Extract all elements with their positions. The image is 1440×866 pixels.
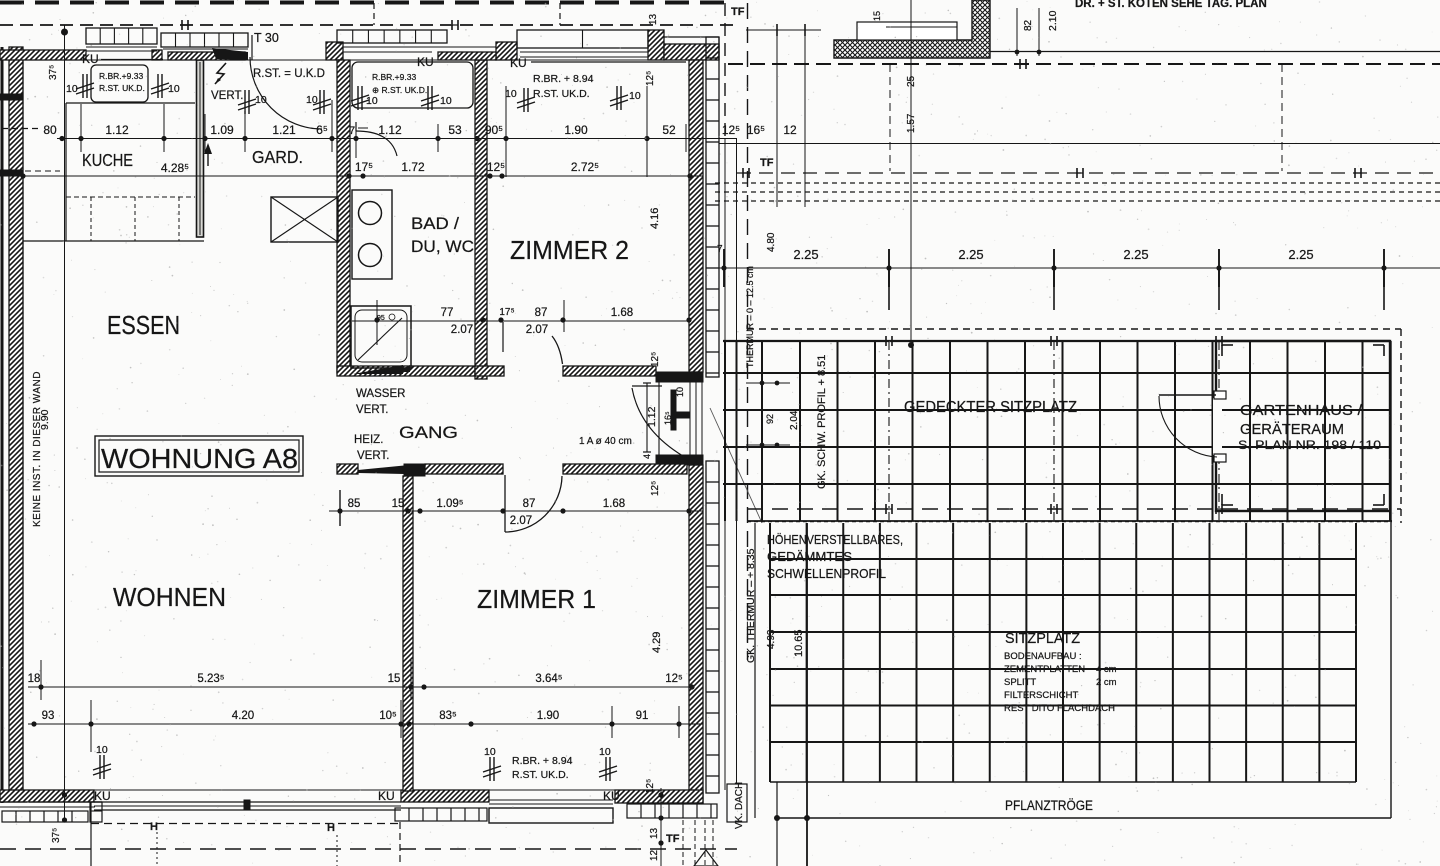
window W6 brick sill left part: [395, 808, 487, 821]
svg-text:12⁵: 12⁵: [645, 779, 656, 794]
svg-text:83⁵: 83⁵: [439, 710, 457, 722]
window W3 bath outer frame: [337, 30, 447, 43]
svg-text:PFLANZTRÖGE: PFLANZTRÖGE: [1005, 796, 1093, 813]
svg-text:REST DITO FLACHDACH: REST DITO FLACHDACH: [1004, 703, 1115, 714]
svg-text:7: 7: [349, 125, 355, 137]
svg-text:2.10: 2.10: [1047, 10, 1059, 31]
gard partition wall: [197, 60, 204, 237]
svg-text:37⁵: 37⁵: [51, 828, 62, 843]
window W6 brick sill right part: [627, 804, 717, 818]
svg-text:12: 12: [649, 849, 660, 861]
svg-text:10: 10: [440, 95, 452, 107]
dot x911 sill: [908, 342, 914, 348]
svg-text:HÖHENVERSTELLBARES,: HÖHENVERSTELLBARES,: [767, 533, 903, 547]
dashed vertical axis x747: [747, 3, 749, 660]
left exterior wall (hatched): [9, 47, 23, 792]
top wall NE corner piece: [664, 44, 719, 60]
bath south wall (hatched): [337, 366, 475, 376]
svg-text:7: 7: [717, 244, 723, 255]
dim line y138: [57, 138, 737, 140]
svg-text:15: 15: [872, 11, 882, 21]
right exterior wall lower part (hatched): [689, 465, 703, 803]
pflanztroege bottom dots: [774, 815, 780, 821]
small dim tick line y445: [746, 444, 790, 446]
svg-text:1.09⁵: 1.09⁵: [436, 498, 463, 510]
svg-text:1.57: 1.57: [906, 113, 917, 133]
svg-text:TF: TF: [731, 6, 745, 18]
dashed line y823: [91, 823, 400, 825]
svg-text:10⁵: 10⁵: [379, 710, 397, 722]
gartenhaus door arc: [1159, 396, 1217, 457]
svg-text:12⁵: 12⁵: [722, 123, 740, 137]
svg-text:WOHNUNG A8: WOHNUNG A8: [101, 443, 298, 474]
svg-text:1.90: 1.90: [564, 123, 588, 137]
dim line y138 dashes left: [2, 128, 42, 130]
svg-text:10: 10: [168, 83, 180, 95]
terrace dashed boundary right: [1400, 329, 1402, 523]
gartenhaus corner bracket BL: [1221, 494, 1223, 505]
dim line y687: [28, 686, 692, 688]
svg-text:2.04: 2.04: [789, 410, 800, 430]
svg-text:DR. + ST. KOTEN SEHE TAG. PLAN: DR. + ST. KOTEN SEHE TAG. PLAN: [1075, 0, 1267, 10]
svg-text:VK. DACH: VK. DACH: [734, 782, 745, 829]
svg-text:1.72: 1.72: [401, 160, 425, 174]
svg-text:90⁵: 90⁵: [485, 123, 503, 137]
threshold black T mark in gang: [671, 390, 676, 430]
svg-text:H: H: [327, 822, 335, 834]
svg-text:10: 10: [66, 83, 78, 95]
svg-text:KU: KU: [82, 52, 99, 66]
terrace door opening lines: [689, 382, 691, 455]
svg-text:53: 53: [448, 123, 462, 137]
svg-text:4.16: 4.16: [649, 208, 661, 229]
dashed vertical connector at x725: [724, 3, 726, 139]
svg-text:12⁵: 12⁵: [665, 673, 683, 685]
kitchen lower cabinets dashed: [66, 196, 195, 198]
dim dots y138: [78, 136, 83, 141]
gang dim ticks: [643, 382, 651, 384]
svg-text:12⁵: 12⁵: [487, 160, 505, 174]
svg-text:15: 15: [392, 498, 405, 510]
zimmer2 door leaf line: [502, 322, 504, 352]
terrace door leaf line: [632, 385, 662, 387]
zimmer1 west wall (hatched): [403, 476, 413, 791]
svg-text:5.23⁵: 5.23⁵: [197, 673, 224, 685]
concrete inner line: [886, 26, 957, 28]
terrace long dash line y509: [747, 508, 1401, 510]
svg-text:ZIMMER 1: ZIMMER 1: [477, 584, 596, 614]
sitzplatz paving grid: [770, 558, 1356, 560]
bath sink circle: [359, 202, 382, 225]
window W5 brick sill left: [2, 811, 88, 822]
svg-text:R.BR.+9.33: R.BR.+9.33: [372, 72, 416, 82]
svg-text:10: 10: [484, 746, 496, 758]
ins mark W4 right: [616, 86, 618, 110]
axis tick H on overhang line 2: [451, 20, 453, 30]
svg-text:10: 10: [675, 387, 685, 397]
north triangle outline: [694, 850, 718, 866]
svg-text:KUCHE: KUCHE: [82, 150, 133, 170]
zimmer2 south wall east piece (hatched): [563, 366, 656, 376]
bottom dim dots: [658, 792, 663, 797]
svg-text:10: 10: [629, 90, 641, 102]
window W2 sill lines: [163, 48, 248, 50]
electrical symbol squiggle: [215, 63, 226, 84]
dim line y511: [329, 510, 703, 512]
dashed line y201: [715, 200, 1440, 202]
vertical pair x777: [776, 30, 778, 207]
svg-text:R.ST. UK.D.: R.ST. UK.D.: [533, 88, 590, 100]
ins mark W3 right: [427, 86, 429, 110]
tick y173 c: [1354, 168, 1356, 178]
door frame line right: [251, 35, 253, 60]
svg-text:R.BR.+9.33: R.BR.+9.33: [99, 71, 143, 81]
svg-text:VERT.: VERT.: [356, 404, 388, 416]
svg-text:1.12: 1.12: [646, 406, 658, 427]
kitchen counter outline: [66, 102, 195, 104]
svg-text:GEDÄMMTES: GEDÄMMTES: [767, 550, 852, 564]
zimmer2 south wall west piece (hatched): [475, 366, 504, 376]
gartenhaus box: [1216, 341, 1390, 511]
gang south wall mid piece (hatched): [425, 464, 503, 474]
vert text VK DACH: [727, 784, 747, 822]
svg-text:10: 10: [366, 95, 378, 107]
bath door arc: [356, 131, 397, 156]
svg-text:KU: KU: [378, 789, 395, 803]
thick line x807: [806, 523, 808, 866]
window W6 zimmer1 outer frame: [489, 808, 613, 823]
gartenhaus corner bracket TR: [1383, 345, 1385, 356]
terrace door swing arc into gang: [632, 388, 688, 459]
ladder band lower: [706, 461, 719, 793]
column stub x1219: [1218, 268, 1220, 310]
concrete inner white rect: [857, 22, 957, 40]
top wall pier left of bath window: [326, 42, 343, 60]
dim dots y320: [374, 317, 379, 322]
dense dashed line y522: [747, 521, 1392, 523]
terrace dashed boundary top: [747, 328, 1401, 330]
small dim tick line y383: [746, 382, 790, 384]
bottom dim column line: [660, 788, 662, 866]
gartenhaus door leaf: [1159, 394, 1216, 396]
svg-text:4.80: 4.80: [766, 232, 777, 252]
svg-text:SCHWELLENPROFIL: SCHWELLENPROFIL: [767, 567, 886, 581]
window W1 kitchen outer frame: [86, 28, 157, 44]
tick line y30: [746, 29, 821, 31]
svg-text:25: 25: [906, 75, 917, 87]
svg-text:ZIMMER 2: ZIMMER 2: [510, 235, 629, 265]
svg-text:ESSEN: ESSEN: [107, 310, 180, 340]
sill step at wohnen window: [90, 802, 102, 822]
top wall inner face line: [23, 59, 689, 61]
dashed vertical x400: [399, 822, 401, 866]
kitchen appliance box (rounded): [91, 65, 148, 102]
svg-text:80: 80: [43, 123, 57, 137]
svg-text:BAD /: BAD /: [411, 214, 459, 233]
top wall segment west of kitchen window: [0, 50, 86, 60]
svg-text:TF: TF: [666, 833, 680, 845]
svg-text:82: 82: [1023, 19, 1034, 31]
svg-text:1.12: 1.12: [105, 123, 129, 137]
svg-text:1.90: 1.90: [537, 710, 559, 722]
dim ticks y268: [723, 249, 725, 287]
svg-text:HEIZ.: HEIZ.: [354, 434, 383, 446]
gartenhaus door jamb lower: [1214, 454, 1226, 462]
svg-text:1.68: 1.68: [611, 307, 633, 319]
long dash line y849: [0, 848, 737, 850]
shower drain black strip: [353, 365, 403, 374]
svg-text:R.ST. UK.D.: R.ST. UK.D.: [512, 769, 569, 781]
ins mark bottom wohnen: [99, 755, 101, 779]
dotted vertical x157: [156, 832, 158, 866]
svg-text:H: H: [150, 821, 158, 833]
dim ext verticals y320: [563, 300, 565, 332]
svg-text:⊕ R.ST. UK.D.: ⊕ R.ST. UK.D.: [372, 85, 427, 95]
zimmer2 door swing arc: [552, 336, 563, 364]
top wall corner pier at zimmer2 NE: [648, 30, 664, 60]
svg-text:1 A ø 40 cm: 1 A ø 40 cm: [579, 436, 632, 447]
entrance door leaf black wedge: [212, 48, 248, 60]
svg-text:R.BR. + 8.94: R.BR. + 8.94: [512, 755, 573, 767]
bottom wall segment west (hatched): [0, 790, 94, 802]
svg-text:WOHNEN: WOHNEN: [113, 582, 226, 612]
solid vertical x91: [90, 802, 92, 866]
svg-text:VERT.: VERT.: [211, 90, 243, 102]
svg-text:10: 10: [96, 744, 108, 756]
gartenhaus door jamb upper: [1214, 391, 1226, 399]
dim tick at 340: [339, 490, 341, 526]
ins mark bottom z1 right: [605, 757, 607, 781]
zimmer1 door swing arc: [505, 476, 562, 532]
roof dashed line right part: [728, 63, 1440, 65]
svg-text:2.25: 2.25: [1123, 247, 1148, 262]
svg-text:52: 52: [662, 123, 676, 137]
gang dim vertical line: [646, 383, 648, 452]
dim ext verticals y687: [40, 660, 42, 700]
svg-text:DU, WC: DU, WC: [411, 237, 474, 256]
gard arrow up: [207, 146, 209, 166]
gartenhaus door opening whiteout: [1213, 398, 1222, 455]
svg-text:9.90: 9.90: [39, 409, 51, 430]
svg-text:TF: TF: [760, 157, 774, 169]
svg-text:4: 4: [642, 454, 652, 459]
svg-text:THERMUR – 0 – 12.5 cm: THERMUR – 0 – 12.5 cm: [745, 266, 755, 368]
window W3 sill lines: [343, 46, 496, 48]
dim dots y724: [31, 721, 36, 726]
svg-text:16⁵: 16⁵: [747, 123, 765, 137]
dashed vertical x890 upper: [889, 64, 891, 171]
svg-text:3.64⁵: 3.64⁵: [535, 673, 562, 685]
window W5 wohnen sill lines: [94, 801, 401, 803]
dim ext verticals y724: [90, 700, 92, 752]
svg-text:R.ST. UK.D.: R.ST. UK.D.: [99, 83, 145, 93]
svg-text:10: 10: [306, 94, 318, 106]
long line y52 right: [990, 51, 1440, 53]
svg-text:GARD.: GARD.: [252, 147, 303, 167]
wasser vert black triangle: [396, 365, 410, 372]
left wall joint black band 2: [0, 170, 23, 176]
outer rect left edge x755: [754, 523, 756, 818]
kitchen dashes left: [25, 170, 60, 172]
dim dots y176: [20, 173, 25, 178]
ins mark W1 right: [157, 74, 159, 98]
window W4 zimmer2 outer frame: [517, 30, 648, 48]
svg-text:87: 87: [535, 307, 548, 319]
dashed verticals right wall bottom: [682, 820, 684, 866]
NE corner outer lines: [664, 36, 719, 38]
vertical axis line x64: [64, 25, 66, 822]
terrace door threshold black block lower: [656, 455, 703, 465]
svg-text:GK. SCHW. PROFIL + 8.51: GK. SCHW. PROFIL + 8.51: [816, 355, 828, 489]
svg-text:77: 77: [441, 307, 454, 319]
svg-text:2 cm: 2 cm: [1096, 677, 1117, 688]
dashed vertical connector at x374: [373, 3, 375, 25]
right exterior wall upper part (hatched): [689, 60, 703, 372]
svg-text:R.BR. + 8.94: R.BR. + 8.94: [533, 73, 594, 85]
bath wc circle: [359, 244, 382, 267]
column stub x1384: [1383, 268, 1385, 310]
svg-text:93: 93: [42, 710, 55, 722]
dim ext verticals y138: [80, 104, 82, 152]
top wall pier between windows W1 W2: [152, 50, 162, 60]
svg-text:ZEMENTPLATTEN: ZEMENTPLATTEN: [1004, 664, 1085, 675]
bottom wall segment east (hatched): [615, 790, 703, 803]
column stub x1054: [1053, 268, 1055, 310]
svg-text:KU: KU: [417, 55, 434, 69]
ladder band upper: [706, 37, 719, 377]
ins mark bottom z1 left: [489, 757, 491, 781]
grid axis dashed x1219: [1218, 341, 1220, 520]
window W3 sill hatch piece: [438, 52, 496, 60]
svg-text:2.25: 2.25: [958, 247, 983, 262]
vertical x777 bottom: [776, 782, 778, 866]
threshold vertical line b: [736, 139, 738, 790]
svg-text:KU: KU: [603, 789, 620, 803]
zimmer1 door leaf line: [504, 475, 506, 532]
gartenhaus corner bracket TL: [1221, 345, 1223, 356]
svg-text:87: 87: [523, 498, 536, 510]
dim line y320: [352, 320, 689, 322]
svg-text:KEINE INST. IN DIESER WAND: KEINE INST. IN DIESER WAND: [32, 371, 43, 527]
svg-text:6⁵: 6⁵: [316, 123, 328, 137]
window W5 mullion black: [244, 800, 250, 809]
wohnen door leaf (black wedge): [358, 466, 404, 475]
zimmer2 west wall (hatched): [475, 60, 487, 379]
svg-text:T 30: T 30: [254, 31, 279, 45]
ins mark door left: [244, 90, 246, 114]
svg-text:1.09: 1.09: [210, 123, 234, 137]
entrance door sill hatch: [168, 52, 245, 60]
dim line y268: [719, 267, 1440, 269]
svg-text:13: 13: [649, 827, 660, 839]
svg-text:GERÄTERAUM: GERÄTERAUM: [1240, 421, 1344, 438]
svg-text:2.25: 2.25: [793, 247, 818, 262]
svg-text:10.65: 10.65: [793, 629, 805, 657]
grid axis dashed x1054: [1053, 341, 1055, 520]
svg-text:GARTENHAUS /: GARTENHAUS /: [1240, 402, 1363, 419]
svg-text:1.12: 1.12: [378, 123, 402, 137]
entrance door swing arc: [250, 57, 322, 129]
svg-text:4.29: 4.29: [651, 632, 663, 653]
axis H ticks y509: [885, 504, 887, 514]
top wall pier between bath and zimmer2 windows: [496, 42, 517, 60]
svg-text:VERT.: VERT.: [357, 450, 389, 462]
svg-text:10: 10: [599, 746, 611, 758]
left wall joint black band 1: [0, 94, 23, 100]
svg-text:91: 91: [636, 710, 649, 722]
vertical pair x805: [804, 30, 806, 207]
window W2 outer frame: [161, 33, 248, 47]
axis dot top: [61, 29, 68, 36]
svg-text:GEDECKTER SITZPLATZ: GEDECKTER SITZPLATZ: [904, 399, 1077, 416]
left wall outer face line: [1, 47, 4, 803]
svg-text:GANG: GANG: [399, 424, 458, 442]
gang south wall west piece (hatched): [337, 464, 358, 474]
line y143 right: [719, 143, 1440, 145]
svg-text:85: 85: [348, 498, 361, 510]
outer rect right edge x1391: [1390, 341, 1392, 818]
svg-text:10: 10: [255, 94, 267, 106]
svg-text:WASSER: WASSER: [356, 388, 405, 400]
grid axis dashed x889: [888, 341, 890, 520]
window W1 sill lines: [86, 46, 157, 48]
diagonal crease line: [710, 408, 762, 523]
svg-text:KU: KU: [510, 56, 527, 70]
svg-text:12: 12: [783, 123, 797, 137]
dim dots y687: [38, 684, 43, 689]
tick on roof dashed right: [1019, 59, 1021, 69]
svg-text:92: 92: [765, 414, 775, 424]
svg-text:BODENAUFBAU :: BODENAUFBAU :: [1004, 651, 1082, 662]
ins mark door right: [319, 90, 321, 114]
ins mark W3 left: [357, 86, 359, 110]
bottom wall segment mid (hatched): [401, 790, 489, 802]
svg-text:1.21: 1.21: [272, 123, 296, 137]
bath west wall (hatched): [337, 60, 350, 373]
svg-text:2.72⁵: 2.72⁵: [571, 160, 599, 174]
svg-text:4.20: 4.20: [232, 710, 254, 722]
ins mark W4 left: [523, 88, 525, 112]
svg-text:17⁵: 17⁵: [355, 160, 373, 174]
svg-text:13: 13: [648, 13, 659, 25]
svg-text:12⁵: 12⁵: [650, 352, 661, 367]
dashed line y183: [715, 182, 1440, 184]
left wall inner face line: [22, 60, 24, 790]
tick y173 b: [1076, 168, 1078, 178]
dashed vertical connector at x560: [559, 3, 561, 25]
threshold vertical line a: [724, 139, 726, 790]
bottom wall inner face line: [23, 789, 689, 791]
storage X-box: [271, 197, 338, 242]
svg-text:2.25: 2.25: [1288, 247, 1313, 262]
tick y173 a: [742, 168, 744, 178]
axis H ticks top grid: [885, 336, 887, 346]
svg-text:SITZPLATZ: SITZPLATZ: [1005, 631, 1080, 647]
bath vanity box (rounded): [352, 62, 473, 108]
gang south wall east piece (hatched): [563, 464, 687, 474]
dim line y176: [23, 175, 703, 177]
svg-text:2.07: 2.07: [451, 324, 473, 336]
svg-text:2.07: 2.07: [510, 515, 532, 527]
svg-text:17⁵: 17⁵: [499, 307, 514, 318]
dim ext 82/210 lines: [1016, 8, 1018, 56]
svg-text:4 cm: 4 cm: [1096, 664, 1117, 675]
column stub x889: [888, 268, 890, 310]
svg-text:KU: KU: [94, 789, 111, 803]
dashed line y192: [715, 191, 1440, 193]
roof overhang dashed line: [0, 24, 738, 26]
svg-text:2.07: 2.07: [526, 324, 548, 336]
